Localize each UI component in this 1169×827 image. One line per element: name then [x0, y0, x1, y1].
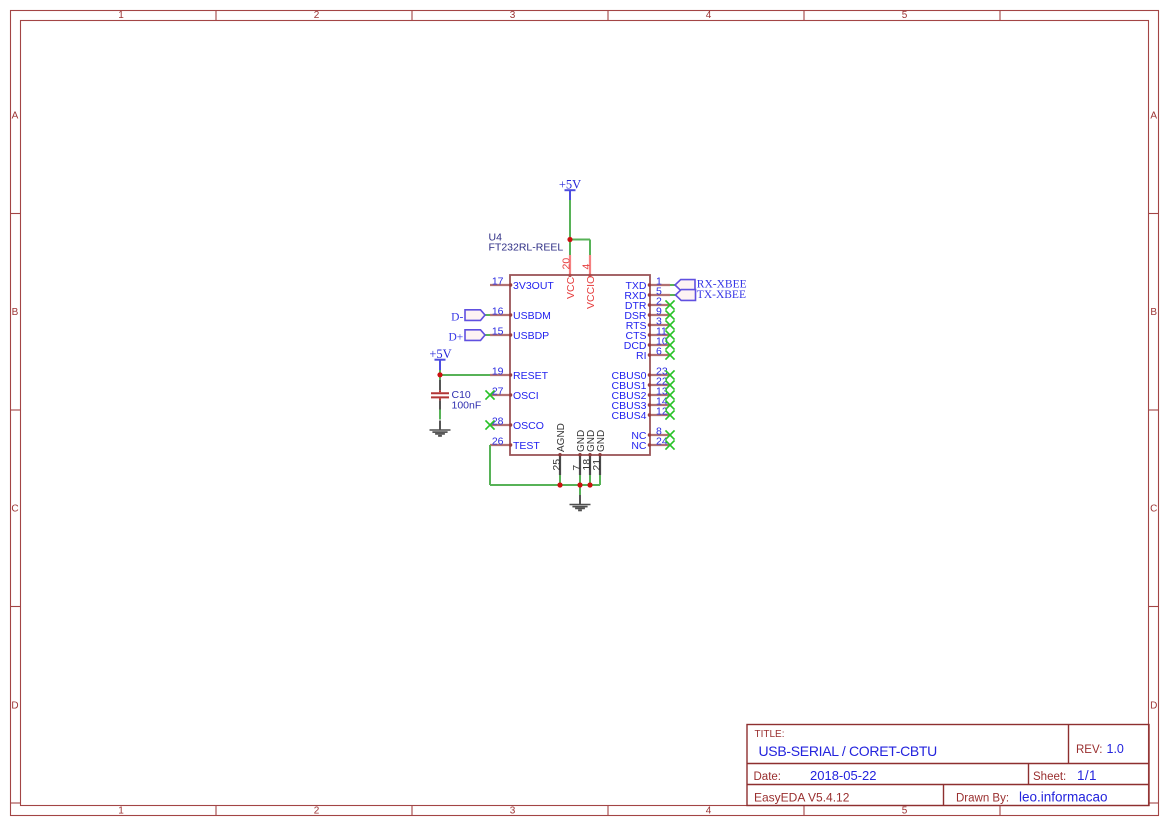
no-connect X right pin y=415: [665, 410, 674, 419]
svg-text:4: 4: [706, 10, 712, 21]
junction dot at VCC branch: [567, 237, 572, 242]
svg-text:RESET: RESET: [513, 370, 549, 382]
pin 9 DSR (right): [624, 305, 670, 321]
svg-text:19: 19: [492, 365, 504, 377]
svg-text:USBDM: USBDM: [513, 310, 551, 322]
no-connect X right pin y=305: [665, 300, 674, 309]
svg-text:USB-SERIAL / CORET-CBTU: USB-SERIAL / CORET-CBTU: [759, 743, 938, 759]
svg-text:C: C: [1150, 504, 1157, 515]
no-connect X right pin y=345: [665, 340, 674, 349]
svg-text:100nF: 100nF: [452, 399, 482, 411]
power flag +5V (top): [559, 178, 581, 200]
no-connect X right pin y=395: [665, 390, 674, 399]
svg-text:FT232RL-REEL: FT232RL-REEL: [489, 242, 564, 254]
port flag D+: [449, 330, 490, 344]
svg-text:3V3OUT: 3V3OUT: [513, 280, 554, 292]
svg-text:17: 17: [492, 275, 504, 287]
pin 15 USBDP (left): [490, 325, 549, 341]
svg-text:OSCO: OSCO: [513, 420, 544, 432]
wire +5V to VCC pin 20: [569, 200, 571, 255]
value FT232RL-REEL: [489, 242, 564, 254]
svg-text:AGND: AGND: [556, 423, 567, 452]
svg-text:25: 25: [551, 459, 563, 471]
pin 17 3V3OUT (left): [490, 275, 554, 291]
pin 10 DCD (right): [624, 335, 670, 351]
wire down to C10: [439, 375, 441, 380]
pin 6 RI (right): [636, 345, 670, 361]
wire C10 to ground: [439, 410, 441, 420]
svg-text:TEST: TEST: [513, 440, 540, 452]
svg-text:2018-05-22: 2018-05-22: [810, 768, 877, 783]
junction dot AGND: [557, 482, 562, 487]
port flag RX-XBEE: [670, 279, 747, 291]
svg-text:VCC: VCC: [565, 276, 577, 299]
pin 18 GND (bottom): [581, 430, 597, 475]
pin 24 NC (right): [631, 435, 670, 451]
svg-text:A: A: [12, 111, 19, 122]
svg-text:21: 21: [591, 459, 603, 471]
svg-text:RI: RI: [636, 350, 647, 362]
svg-text:3: 3: [510, 10, 516, 21]
no-connect X right pin y=405: [665, 400, 674, 409]
no-connect X left pin y=395: [485, 390, 494, 399]
svg-text:1: 1: [118, 10, 124, 21]
ground (below chip): [570, 495, 591, 510]
wire TEST pin to ground bus: [490, 445, 600, 485]
svg-text:D: D: [11, 701, 18, 712]
svg-text:VCCIO: VCCIO: [585, 276, 597, 309]
svg-text:CBUS4: CBUS4: [611, 410, 646, 422]
svg-text:D-: D-: [451, 312, 463, 324]
svg-text:Sheet:: Sheet:: [1033, 771, 1066, 783]
junction dot at RESET net: [437, 372, 442, 377]
pin 12 CBUS4 (right): [611, 405, 670, 421]
svg-text:1/1: 1/1: [1077, 768, 1097, 783]
svg-text:A: A: [1150, 111, 1157, 122]
pin 7 GND (bottom): [571, 430, 587, 475]
no-connect X right pin y=445: [665, 440, 674, 449]
no-connect X right pin y=375: [665, 370, 674, 379]
junction dot GND 7: [577, 482, 582, 487]
pin 14 CBUS3 (right): [611, 395, 670, 411]
pin 16 USBDM (left): [490, 305, 551, 321]
svg-text:1: 1: [118, 806, 124, 817]
svg-text:16: 16: [492, 305, 504, 317]
no-connect X right pin y=385: [665, 380, 674, 389]
pin 3 RTS (right): [626, 315, 670, 331]
svg-text:NC: NC: [631, 440, 647, 452]
wire GND pin 7 stub: [579, 475, 581, 485]
pin 5 RXD (right): [624, 285, 670, 301]
svg-text:15: 15: [492, 325, 504, 337]
ground (below C10): [430, 421, 451, 436]
svg-text:6: 6: [656, 345, 662, 357]
pin 4 VCCIO (top): [580, 255, 597, 309]
svg-text:D: D: [1150, 701, 1157, 712]
pin 28 OSCO (left): [490, 415, 544, 431]
pin 26 TEST (left): [490, 435, 540, 451]
svg-text:20: 20: [560, 258, 572, 270]
no-connect X right pin y=325: [665, 320, 674, 329]
svg-text:5: 5: [902, 10, 908, 21]
svg-text:4: 4: [706, 806, 712, 817]
svg-text:USBDP: USBDP: [513, 330, 549, 342]
pin 13 CBUS2 (right): [611, 385, 670, 401]
svg-text:GND: GND: [596, 430, 607, 452]
svg-text:leo.informacao: leo.informacao: [1019, 790, 1108, 805]
power flag +5V (left): [429, 347, 451, 370]
no-connect X right pin y=335: [665, 330, 674, 339]
wire branch to VCCIO pin 4: [570, 240, 590, 256]
svg-text:D+: D+: [449, 332, 464, 344]
wire AGND pin 25 stub: [559, 475, 561, 485]
svg-text:2: 2: [314, 806, 320, 817]
pin 11 CTS (right): [626, 325, 671, 341]
pin 8 NC (right): [631, 425, 670, 441]
no-connect X left pin y=425: [485, 420, 494, 429]
svg-text:EasyEDA V5.4.12: EasyEDA V5.4.12: [754, 791, 850, 805]
svg-text:4: 4: [580, 264, 592, 270]
op chip U4 FT232RL-REEL body: [510, 275, 650, 455]
wire ground bus to ground symbol: [579, 485, 581, 495]
wire +5V to RESET pin 19: [440, 370, 490, 375]
svg-text:B: B: [1150, 307, 1157, 318]
pin 21 GND (bottom): [591, 430, 607, 475]
title block: [747, 725, 1149, 806]
no-connect X right pin y=355: [665, 350, 674, 359]
svg-text:Date:: Date:: [754, 771, 782, 783]
svg-text:5: 5: [902, 806, 908, 817]
no-connect X right pin y=315: [665, 310, 674, 319]
svg-text:TX-XBEE: TX-XBEE: [697, 289, 746, 301]
svg-text:26: 26: [492, 435, 504, 447]
svg-text:2: 2: [314, 10, 320, 21]
pin 20 VCC (top): [560, 255, 577, 299]
pin 2 DTR (right): [625, 295, 670, 311]
svg-text:1.0: 1.0: [1107, 742, 1124, 756]
junction dot GND 18: [587, 482, 592, 487]
pin 1 TXD (right): [626, 275, 671, 291]
port flag D-: [451, 310, 490, 324]
no-connect X right pin y=435: [665, 430, 674, 439]
pin 19 RESET (left): [490, 365, 549, 381]
svg-text:C: C: [11, 504, 18, 515]
svg-text:TITLE:: TITLE:: [755, 729, 785, 740]
port flag TX-XBEE: [670, 289, 746, 301]
svg-text:3: 3: [510, 806, 516, 817]
capacitor C10 100nF: [431, 380, 481, 411]
pin 22 CBUS1 (right): [611, 375, 670, 391]
wire GND pin 21 stub: [599, 475, 601, 485]
pin 25 AGND (bottom): [551, 423, 567, 475]
svg-text:REV:: REV:: [1076, 744, 1102, 756]
wire GND pin 18 stub: [589, 475, 591, 485]
svg-text:+5V: +5V: [429, 347, 451, 361]
pin 23 CBUS0 (right): [611, 365, 670, 381]
svg-text:Drawn By:: Drawn By:: [956, 793, 1009, 805]
designator U4: [489, 232, 503, 244]
pin 27 OSCI (left): [490, 385, 539, 401]
svg-text:B: B: [12, 307, 19, 318]
svg-text:OSCI: OSCI: [513, 390, 539, 402]
